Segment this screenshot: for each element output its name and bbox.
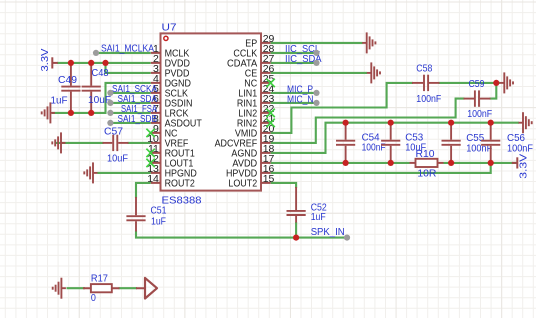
junction PVDD branch <box>102 60 108 66</box>
svg-text:3.3V: 3.3V <box>39 49 51 72</box>
junction C54 bottom <box>343 160 349 166</box>
capacitor C54 100nF <box>336 123 355 163</box>
svg-text:1uF: 1uF <box>51 95 68 107</box>
ground at C57 <box>52 132 65 153</box>
ground HPGND <box>84 162 97 183</box>
svg-text:R17: R17 <box>91 273 108 285</box>
svg-text:100nF: 100nF <box>362 142 386 154</box>
svg-text:10uF: 10uF <box>107 152 128 164</box>
capacitor C59 100nF <box>464 90 491 106</box>
capacitor C58 100nF <box>412 75 440 91</box>
junction C48 bottom <box>88 110 94 116</box>
wire pin24 LIN1 MIC_P <box>271 92 317 94</box>
svg-text:100nF: 100nF <box>467 108 492 120</box>
svg-text:100nF: 100nF <box>507 143 533 155</box>
svg-text:1uF: 1uF <box>151 216 166 228</box>
svg-text:C59: C59 <box>469 78 485 90</box>
no-connect pin12 LOUT1 <box>146 159 154 167</box>
svg-text:C58: C58 <box>416 62 432 74</box>
power flag 3.3V left <box>52 57 58 68</box>
svg-text:ES8388: ES8388 <box>162 195 202 207</box>
ground at R17 <box>53 278 66 299</box>
svg-text:SAI1_SDB: SAI1_SDB <box>118 113 158 125</box>
junction C55 top <box>448 120 454 126</box>
junction C52 bottom on SPK rail <box>293 235 299 241</box>
wire pin29 EP to ground <box>271 42 363 44</box>
capacitor C57 10uF <box>103 135 129 151</box>
svg-text:U7: U7 <box>162 22 177 34</box>
wire pin16 HPVDD to 3.3V rail <box>271 163 491 173</box>
no-connect pin11 ROUT1 <box>146 149 154 157</box>
wire R10 to 3.3V <box>444 162 517 164</box>
wire pin19 ADCVREF to C59 <box>271 99 465 143</box>
end MIC_P <box>313 90 319 96</box>
svg-text:SAI1_MCLKA: SAI1_MCLKA <box>101 42 154 54</box>
junction C55 bottom <box>448 160 454 166</box>
wire pin17 AVDD to R10 <box>271 162 410 164</box>
svg-text:3.3V: 3.3V <box>517 154 529 179</box>
svg-text:15: 15 <box>263 173 275 185</box>
no-connect pin22 LIN2 <box>266 109 274 117</box>
svg-text:C49: C49 <box>58 74 77 86</box>
wire C51 to SPK_IN rail <box>136 231 347 238</box>
resistor R17 0 <box>91 284 112 292</box>
wire branch to pin3 PVDD <box>106 63 151 73</box>
wire pin23 RIN1 MIC_N <box>271 102 317 104</box>
svg-text:10R: 10R <box>417 167 436 179</box>
capacitor C51 1uF <box>126 197 145 232</box>
wire SAI1_SCKA to pin5 <box>110 92 150 94</box>
svg-text:100nF: 100nF <box>416 93 441 105</box>
wire pin18 AGND rail <box>271 123 519 153</box>
capacitor C56 100nF <box>481 123 500 163</box>
no-connect pin21 RIN2 <box>266 119 274 127</box>
U7 left pins 1-14 stubs <box>151 43 271 183</box>
U7 pin1 indicator circle <box>164 36 168 40</box>
end IIC_SDA <box>313 60 319 66</box>
ground DGND rail <box>42 102 55 123</box>
svg-text:ROUT2: ROUT2 <box>165 178 195 190</box>
svg-text:C48: C48 <box>92 67 109 79</box>
wire pin26 CE to ground <box>271 72 367 74</box>
wire C52 to SPK_IN rail <box>295 222 297 238</box>
svg-text:LOUT2: LOUT2 <box>228 178 257 190</box>
wire to ground top right <box>496 82 500 84</box>
wire ground to R17 <box>67 287 86 289</box>
wire R17 to port <box>119 287 138 289</box>
junction C48 top <box>88 60 94 66</box>
junction C56 bottom <box>488 160 494 166</box>
svg-text:MIC_N: MIC_N <box>287 93 314 105</box>
op IC U7 ES8388 body <box>161 33 262 190</box>
end SPK_IN <box>344 235 350 241</box>
svg-text:C57: C57 <box>104 125 123 137</box>
junction C54 top <box>343 120 349 126</box>
no-connect pin25 NC <box>266 79 274 87</box>
capacitor C55 100nF <box>442 123 461 163</box>
wire pin28 CCLK IIC_SCL <box>271 52 317 54</box>
wire SAI1_SDB to pin8 <box>110 122 150 124</box>
capacitor C52 1uF <box>287 187 306 223</box>
junction C49 top <box>68 60 74 66</box>
capacitor C53 10uF <box>381 123 400 163</box>
junction C58/C59 <box>493 80 499 86</box>
svg-text:SPK_IN: SPK_IN <box>311 226 345 238</box>
svg-text:14: 14 <box>147 173 159 185</box>
end SAI1_SDA <box>107 100 113 106</box>
wire SAI1_FSA to pin7 <box>110 112 150 114</box>
capacitor C49 1uF <box>61 63 80 113</box>
port arrow (off-page connector) <box>145 278 157 299</box>
svg-text:0: 0 <box>91 292 96 304</box>
junction C53 bottom <box>388 160 394 166</box>
wire pin15 LOUT2 to C52 <box>271 183 296 188</box>
wire C57 to pin10 VREF <box>128 142 151 144</box>
svg-text:R10: R10 <box>416 148 435 160</box>
svg-text:1uF: 1uF <box>311 211 326 223</box>
wire SAI1_SDA to pin6 <box>110 102 150 104</box>
wire ground to C57 <box>55 142 104 144</box>
end IIC_SCL <box>313 50 319 56</box>
wire 3.3V rail to pin2 DVDD <box>57 62 151 64</box>
junction C56 top <box>488 120 494 126</box>
no-connect pin9 NC <box>146 129 154 137</box>
power flag 3.3V right <box>512 157 518 168</box>
end SAI1_SCKA <box>107 90 113 96</box>
wire pin14 ROUT2 to C51 <box>136 183 151 198</box>
wire pin27 CDATA IIC_SDA <box>271 62 317 64</box>
ground CE <box>367 62 380 83</box>
resistor R10 10R <box>416 159 438 167</box>
wire ground to pin13 HPGND <box>98 172 151 174</box>
capacitor C48 10uF <box>82 63 101 113</box>
ground C58/C59 net <box>500 72 513 93</box>
end SAI1_FSA <box>107 110 113 116</box>
end MIC_N <box>313 100 319 106</box>
junction C49 bottom <box>68 110 74 116</box>
wire ground rail to pin4 DGND <box>52 83 151 113</box>
junction C53 top <box>388 120 394 126</box>
end SAI1_SDB <box>107 120 113 126</box>
wire SAI1_MCLKA to pin1 <box>96 52 151 54</box>
end SAI1_MCLKA <box>93 50 99 56</box>
ground AGND <box>519 112 532 133</box>
wire C58 to ground net and C59 <box>439 83 497 99</box>
wire pin20 VMID to C58 <box>271 83 413 133</box>
ground EP <box>362 32 375 53</box>
